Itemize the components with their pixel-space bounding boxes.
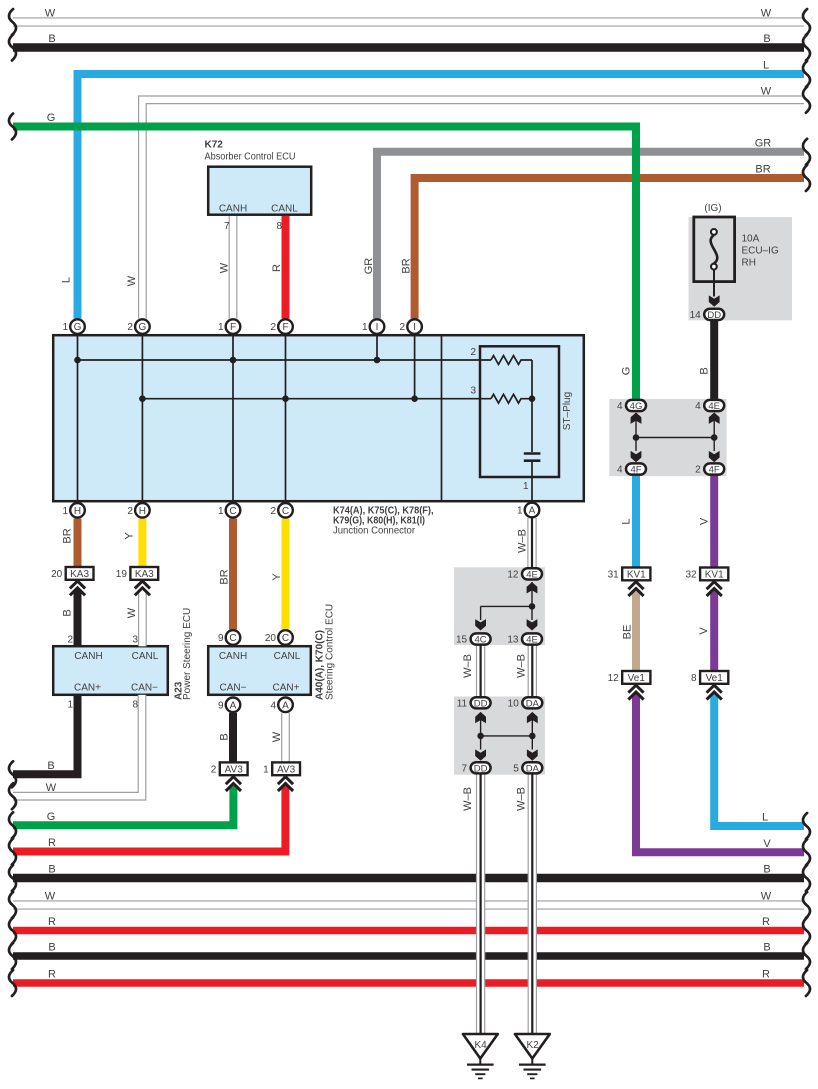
junction connector internal vertical 1G-1H bbox=[77, 335, 79, 501]
svg-text:B: B bbox=[763, 864, 770, 876]
break symbol W top left bbox=[9, 9, 16, 35]
svg-text:14: 14 bbox=[690, 310, 702, 321]
wire B from KA3 to A23 pin 2 bbox=[74, 590, 82, 647]
svg-text:B: B bbox=[48, 942, 55, 954]
svg-text:W–B: W–B bbox=[462, 654, 474, 678]
svg-text:AV3: AV3 bbox=[225, 765, 244, 776]
splice oval 5-DA bbox=[513, 762, 542, 774]
svg-text:B: B bbox=[763, 942, 770, 954]
svg-text:1: 1 bbox=[218, 506, 224, 517]
svg-text:C: C bbox=[229, 633, 236, 644]
break symbol R bottom2 right bbox=[803, 970, 810, 996]
connector box 12 Ve1 bbox=[608, 671, 651, 684]
svg-text:8: 8 bbox=[132, 700, 138, 711]
break symbol R bottom1 right bbox=[803, 918, 810, 944]
break symbol BR right bbox=[803, 165, 810, 191]
ST-Plug box bbox=[480, 346, 559, 477]
break symbol L exit right bbox=[803, 813, 810, 839]
svg-text:4G: 4G bbox=[630, 401, 643, 412]
wire from fuse to 14-DD bbox=[713, 270, 715, 297]
svg-text:B: B bbox=[219, 733, 231, 740]
svg-text:1: 1 bbox=[517, 506, 523, 517]
svg-text:W: W bbox=[761, 86, 772, 98]
svg-text:4E: 4E bbox=[526, 635, 538, 646]
svg-text:L: L bbox=[61, 277, 73, 283]
ECU box A23 Power Steering ECU bbox=[53, 646, 168, 695]
gray background box of splice DD/DA group bbox=[454, 697, 545, 775]
svg-text:C: C bbox=[282, 633, 289, 644]
pin circle 2F bbox=[270, 319, 292, 334]
svg-text:BR: BR bbox=[62, 528, 74, 543]
pin circle 2C bbox=[270, 503, 292, 518]
svg-text:W: W bbox=[761, 8, 772, 20]
svg-text:BE: BE bbox=[622, 625, 634, 640]
svg-text:1: 1 bbox=[263, 765, 269, 776]
svg-text:DD: DD bbox=[707, 310, 721, 321]
connector box 20 KA3 bbox=[51, 567, 93, 580]
wire B bus bottom 2 bbox=[13, 952, 804, 960]
splice oval 7-DD bbox=[462, 762, 491, 774]
wire R from AV3 to left edge bbox=[13, 785, 285, 852]
connector group 3: arrow up into 4E bbox=[709, 413, 720, 424]
node dot rail1 at 1F bbox=[230, 357, 237, 364]
svg-text:G: G bbox=[139, 322, 147, 333]
svg-text:CAN+: CAN+ bbox=[273, 683, 300, 694]
splice group 2: arrow up into 11-DD bbox=[475, 712, 486, 723]
svg-text:CANL: CANL bbox=[132, 651, 159, 662]
node dot rail2 at 2G bbox=[139, 395, 146, 402]
wire W from A40 pin 4A to connector AV3 bbox=[281, 713, 290, 763]
svg-text:C: C bbox=[282, 506, 289, 517]
svg-text:ST–Plug: ST–Plug bbox=[562, 392, 573, 430]
connector group 3: node dot right bbox=[711, 434, 718, 441]
svg-text:19: 19 bbox=[116, 569, 128, 580]
svg-text:BR: BR bbox=[755, 164, 770, 176]
svg-text:C: C bbox=[229, 506, 236, 517]
node dot rail1 at 1I bbox=[374, 357, 381, 364]
svg-text:I: I bbox=[376, 322, 379, 333]
splice group 2: thin lines bbox=[481, 713, 533, 750]
svg-text:I: I bbox=[413, 322, 416, 333]
wire V from Ve1 to right edge bbox=[636, 694, 804, 853]
svg-text:4: 4 bbox=[617, 401, 623, 412]
wire BR from pin 1C to A40 pin 9C bbox=[229, 519, 237, 630]
splice oval 11-DD bbox=[457, 697, 491, 709]
svg-text:V: V bbox=[698, 627, 710, 635]
break symbol B top right bbox=[803, 35, 810, 61]
wire W bus top bbox=[13, 17, 804, 26]
connector box 31 KV1 bbox=[608, 568, 651, 581]
junction connector internal vertical 1I to rail 1 bbox=[376, 335, 378, 360]
svg-text:4C: 4C bbox=[475, 635, 487, 646]
svg-text:K2: K2 bbox=[526, 1040, 539, 1051]
svg-text:1: 1 bbox=[523, 481, 529, 492]
splice group 1: arrow down into 15-4C bbox=[475, 619, 486, 630]
wire W-B from 15-4C to 11-DD bbox=[476, 645, 485, 698]
ground K2 bbox=[515, 1034, 550, 1078]
pin circle 4A bbox=[270, 698, 292, 713]
break symbol B bottom2 left bbox=[9, 943, 16, 969]
svg-text:2: 2 bbox=[270, 506, 276, 517]
wire from capacitor to pin 1A bbox=[531, 462, 533, 503]
break symbol R bottom2 left bbox=[9, 970, 16, 996]
chevron below 1 AV3 bbox=[278, 777, 293, 791]
svg-text:2: 2 bbox=[127, 506, 133, 517]
svg-text:W–B: W–B bbox=[516, 654, 528, 678]
pin circle 1F bbox=[218, 319, 240, 334]
svg-text:W: W bbox=[126, 607, 138, 618]
splice group 1: arrow down into 13-4E bbox=[527, 619, 538, 630]
wire Y from pin 2H to connector KA3 bbox=[138, 519, 146, 568]
svg-text:2: 2 bbox=[127, 322, 133, 333]
wire V from 4F to connector KV1 bbox=[710, 476, 718, 568]
chevron below 2 AV3 bbox=[226, 777, 241, 791]
junction connector internal vertical 2F-2C bbox=[285, 335, 287, 501]
svg-text:4F: 4F bbox=[630, 465, 641, 476]
svg-text:4E: 4E bbox=[708, 401, 720, 412]
svg-text:B: B bbox=[48, 33, 55, 45]
svg-text:9: 9 bbox=[218, 633, 224, 644]
wire R from K72 pin 8 to pin 2F bbox=[282, 216, 290, 319]
svg-text:2: 2 bbox=[400, 322, 406, 333]
break symbol B exit left bbox=[9, 761, 16, 787]
chevron below 12 Ve1 bbox=[628, 685, 643, 699]
wire R bus bottom 1 bbox=[13, 927, 804, 935]
svg-text:W–B: W–B bbox=[462, 787, 474, 811]
wire G from AV3 to left edge bbox=[13, 785, 233, 825]
splice group 2: arrow down into 5-DA bbox=[527, 749, 538, 760]
svg-text:8: 8 bbox=[691, 673, 697, 684]
svg-text:V: V bbox=[699, 517, 711, 525]
wire W from K72 pin 7 to pin 1F bbox=[229, 216, 238, 319]
pin circle 2G bbox=[127, 319, 149, 334]
connector box 32 KV1 bbox=[685, 568, 728, 581]
svg-text:1: 1 bbox=[62, 506, 68, 517]
svg-text:7: 7 bbox=[224, 221, 230, 232]
break symbol W2 top right bbox=[803, 87, 810, 113]
fuse element top circle bbox=[711, 229, 717, 235]
svg-text:1: 1 bbox=[218, 322, 224, 333]
splice oval 14-DD bbox=[690, 309, 725, 321]
wire W bus 2 to pin 2G bbox=[142, 100, 804, 319]
break symbol B bottom1 right bbox=[803, 865, 810, 891]
wire Y from pin 2C to A40 pin 20C bbox=[282, 519, 290, 630]
svg-text:G: G bbox=[74, 322, 82, 333]
splice oval 4-4F bbox=[617, 463, 646, 475]
splice group 2: arrow down into 7-DD bbox=[475, 749, 486, 760]
svg-text:Ve1: Ve1 bbox=[628, 673, 646, 684]
pin circle 9C bbox=[218, 630, 240, 645]
splice oval 2-4F bbox=[695, 463, 724, 475]
svg-text:11: 11 bbox=[457, 698, 468, 709]
svg-text:GR: GR bbox=[755, 137, 772, 149]
splice oval 4-4E bbox=[695, 400, 724, 412]
capacitor in ST-Plug bbox=[524, 454, 541, 461]
chevron below 32 KV1 bbox=[707, 582, 722, 596]
wire G green bus to splice 4G bbox=[13, 127, 636, 399]
svg-text:Steering Control ECU: Steering Control ECU bbox=[325, 604, 336, 700]
svg-text:DD: DD bbox=[474, 698, 488, 709]
svg-text:W: W bbox=[45, 891, 56, 903]
svg-text:K72: K72 bbox=[205, 139, 224, 150]
node dot rail2 at 2F bbox=[282, 395, 289, 402]
svg-text:Y: Y bbox=[124, 532, 136, 540]
svg-text:12: 12 bbox=[608, 673, 620, 684]
wire W-B from 5-DA to ground K2 bbox=[528, 773, 537, 1034]
node dot rail2 at 2I bbox=[411, 395, 418, 402]
break symbol G left bbox=[9, 114, 16, 140]
svg-text:Power Steering ECU: Power Steering ECU bbox=[182, 608, 193, 700]
wire W-B from pin A to splice 12-4E bbox=[527, 518, 536, 568]
resistor on ST-Plug pin 2 bbox=[491, 356, 532, 365]
svg-text:8: 8 bbox=[276, 221, 282, 232]
chevron below 19 KA3 bbox=[135, 581, 150, 595]
chevron below 20 KA3 bbox=[70, 581, 85, 595]
svg-text:V: V bbox=[763, 838, 771, 850]
splice group 1: branch to 15-4C bbox=[481, 606, 532, 620]
connector group 3: node dot left bbox=[633, 434, 640, 441]
splice oval 13-4E bbox=[507, 633, 542, 645]
svg-text:20: 20 bbox=[265, 633, 277, 644]
svg-text:R: R bbox=[762, 916, 770, 928]
svg-text:AV3: AV3 bbox=[277, 765, 296, 776]
wire W from KA3 to A23 pin 3 bbox=[138, 590, 147, 647]
junction connector internal divider bbox=[441, 335, 443, 501]
svg-text:4: 4 bbox=[617, 465, 623, 476]
svg-text:ECU–IG: ECU–IG bbox=[742, 246, 779, 257]
gray background box of connector 4G/4E to 4F/4F group bbox=[609, 399, 726, 476]
svg-text:L: L bbox=[762, 812, 768, 824]
svg-text:GR: GR bbox=[363, 258, 375, 275]
svg-text:K4: K4 bbox=[474, 1040, 487, 1051]
break symbol W bottom right bbox=[803, 892, 810, 918]
svg-text:CANL: CANL bbox=[274, 651, 301, 662]
wire L from Ve1 to right edge bbox=[714, 694, 804, 827]
svg-text:CAN+: CAN+ bbox=[74, 683, 101, 694]
svg-text:DA: DA bbox=[526, 698, 540, 709]
wire BR from pin 1H to connector KA3 bbox=[74, 519, 82, 568]
svg-text:CANH: CANH bbox=[219, 651, 247, 662]
connector group 3: thin lines bbox=[636, 413, 714, 451]
svg-text:(IG): (IG) bbox=[704, 203, 721, 214]
splice oval 15-4C bbox=[456, 633, 491, 645]
svg-text:KA3: KA3 bbox=[135, 569, 154, 580]
svg-text:2: 2 bbox=[470, 347, 476, 358]
splice group 2: arrow up into 10-DA bbox=[527, 712, 538, 723]
resistor on ST-Plug pin 3 bbox=[491, 394, 532, 403]
pin circle 20C bbox=[265, 630, 293, 645]
svg-text:5: 5 bbox=[513, 763, 519, 774]
svg-text:CANL: CANL bbox=[271, 204, 298, 215]
wire B from A23 pin 1 to left edge bbox=[13, 695, 78, 774]
svg-text:W: W bbox=[219, 262, 231, 273]
junction connector internal vertical 1F-1C bbox=[232, 335, 234, 501]
break symbol GR right bbox=[803, 139, 810, 165]
svg-text:W: W bbox=[761, 891, 772, 903]
gray background box of splice 4E/4C group bbox=[454, 567, 545, 645]
break symbol R bottom1 left bbox=[9, 918, 16, 944]
svg-text:1: 1 bbox=[62, 322, 68, 333]
splice oval 10-DA bbox=[508, 697, 543, 709]
pin circle 1I bbox=[362, 319, 384, 334]
svg-text:H: H bbox=[139, 506, 146, 517]
svg-text:R: R bbox=[48, 837, 56, 849]
junction connector CANH rail 1 bbox=[78, 359, 492, 361]
splice group 1: thin line 12-4E down to branch bbox=[531, 582, 533, 620]
break symbol L top right bbox=[803, 61, 810, 87]
break symbol R exit left bbox=[9, 839, 16, 865]
svg-text:R: R bbox=[48, 969, 56, 981]
splice group 1: node dot bbox=[529, 603, 536, 610]
svg-text:G: G bbox=[621, 367, 633, 376]
svg-text:15: 15 bbox=[456, 635, 468, 646]
svg-text:2: 2 bbox=[695, 465, 701, 476]
svg-text:31: 31 bbox=[608, 570, 620, 581]
svg-text:DD: DD bbox=[474, 763, 488, 774]
ground K4 bbox=[463, 1034, 498, 1078]
pin circle 9A bbox=[218, 698, 240, 713]
svg-text:1: 1 bbox=[362, 322, 368, 333]
connector group 3: arrow down into right 4F bbox=[709, 451, 720, 462]
svg-text:B: B bbox=[763, 33, 770, 45]
splice group 2: node dot right bbox=[529, 733, 536, 740]
break symbol B top left bbox=[9, 35, 16, 61]
gray background box of fuse ECU-IG RH bbox=[689, 217, 793, 320]
junction connector internal vertical 2I to rail 2 bbox=[414, 335, 416, 399]
fuse element squiggle bbox=[711, 235, 718, 264]
wire B from A40 pin 9A to connector AV3 bbox=[229, 713, 237, 763]
svg-text:CANH: CANH bbox=[74, 651, 102, 662]
svg-text:Junction Connector: Junction Connector bbox=[333, 526, 416, 537]
svg-text:Absorber Control ECU: Absorber Control ECU bbox=[205, 152, 296, 163]
svg-text:W–B: W–B bbox=[516, 787, 528, 811]
svg-text:W: W bbox=[271, 731, 283, 742]
svg-text:BR: BR bbox=[401, 258, 413, 273]
svg-text:B: B bbox=[62, 609, 74, 616]
svg-text:R: R bbox=[762, 969, 770, 981]
svg-text:CANH: CANH bbox=[219, 204, 247, 215]
svg-text:32: 32 bbox=[685, 570, 697, 581]
node dot rail1 at 1G bbox=[74, 357, 81, 364]
break symbol W bottom left bbox=[9, 892, 16, 918]
wire from resistors to capacitor bbox=[531, 360, 533, 452]
svg-text:KA3: KA3 bbox=[70, 569, 89, 580]
svg-text:G: G bbox=[47, 112, 56, 124]
svg-text:B: B bbox=[699, 367, 711, 374]
svg-text:W: W bbox=[45, 8, 56, 20]
wire L from 4F to connector KV1 bbox=[632, 476, 640, 568]
wire BR from bus to pin 2I bbox=[415, 178, 804, 319]
svg-text:A: A bbox=[230, 700, 237, 711]
svg-text:4: 4 bbox=[270, 700, 276, 711]
svg-text:CAN−: CAN− bbox=[131, 683, 158, 694]
pin circle 1G bbox=[62, 319, 84, 334]
svg-text:12: 12 bbox=[507, 569, 519, 580]
connector group 3: arrow down into left 4F bbox=[631, 451, 642, 462]
connector box 2 AV3 bbox=[211, 762, 248, 775]
wire W bus bottom bbox=[13, 900, 804, 909]
fuse 10A ECU-IG RH box bbox=[694, 217, 735, 282]
svg-text:BR: BR bbox=[219, 569, 231, 584]
svg-text:L: L bbox=[621, 518, 633, 524]
break symbol G exit left bbox=[9, 812, 16, 838]
connector box 19 KA3 bbox=[116, 567, 158, 580]
svg-text:Ve1: Ve1 bbox=[706, 673, 724, 684]
svg-text:KV1: KV1 bbox=[627, 570, 646, 581]
wire L blue from bus to pin 1G bbox=[78, 74, 805, 319]
node dot rail2 at ST-Plug bbox=[529, 395, 536, 402]
splice oval 4-4G bbox=[617, 400, 646, 412]
wire GR from bus to pin 1I bbox=[377, 152, 804, 319]
svg-text:3: 3 bbox=[470, 386, 476, 397]
svg-text:DA: DA bbox=[526, 763, 540, 774]
connector group 3: arrow up into 4G bbox=[631, 413, 642, 424]
break symbol W exit left bbox=[9, 783, 16, 809]
wire B bus top bbox=[13, 43, 804, 52]
wire W-B from 7-DD to ground K4 bbox=[476, 773, 485, 1034]
chevron below 8 Ve1 bbox=[707, 685, 722, 699]
connector box 1 AV3 bbox=[263, 762, 300, 775]
svg-text:3: 3 bbox=[132, 635, 138, 646]
splice group 1: arrow up into 12-4E bbox=[527, 582, 538, 593]
svg-text:L: L bbox=[763, 60, 769, 72]
svg-text:RH: RH bbox=[742, 258, 756, 269]
svg-text:4E: 4E bbox=[526, 569, 538, 580]
wire R bus bottom 2 bbox=[13, 979, 804, 987]
svg-text:CAN−: CAN− bbox=[220, 683, 247, 694]
wire BE from KV1 to Ve1 bbox=[632, 590, 640, 671]
wire W from A23 pin 8 to left edge bbox=[13, 695, 142, 796]
wire B from fuse DD to splice 4E bbox=[710, 321, 718, 399]
svg-text:W: W bbox=[46, 782, 57, 794]
ECU box A40/K70 Steering Control ECU bbox=[208, 646, 311, 695]
junction connector internal vertical 2G-2H bbox=[141, 335, 143, 501]
junction connector CANL rail 2 bbox=[142, 398, 491, 400]
svg-text:1: 1 bbox=[67, 700, 73, 711]
svg-text:2: 2 bbox=[211, 765, 217, 776]
arrow down into 14-DD bbox=[709, 295, 720, 306]
svg-text:W: W bbox=[126, 275, 138, 286]
svg-text:W–B: W–B bbox=[517, 529, 529, 553]
wire B bus bottom 1 bbox=[13, 874, 804, 882]
break symbol V exit right bbox=[803, 839, 810, 865]
fuse element bottom circle bbox=[711, 264, 717, 270]
svg-text:B: B bbox=[47, 760, 54, 772]
svg-text:Y: Y bbox=[271, 573, 283, 581]
svg-text:G: G bbox=[47, 811, 56, 823]
chevron below 31 KV1 bbox=[628, 582, 643, 596]
pin circle 1A bbox=[517, 503, 539, 518]
svg-text:4F: 4F bbox=[709, 465, 720, 476]
connector box 8 Ve1 bbox=[691, 671, 728, 684]
svg-text:B: B bbox=[48, 864, 55, 876]
svg-text:10A: 10A bbox=[742, 234, 760, 245]
svg-text:A: A bbox=[529, 506, 536, 517]
svg-text:F: F bbox=[282, 322, 288, 333]
splice oval 12-4E bbox=[507, 568, 542, 580]
pin circle 1H bbox=[62, 503, 84, 518]
svg-text:KV1: KV1 bbox=[705, 570, 724, 581]
svg-text:9: 9 bbox=[218, 700, 224, 711]
svg-text:A: A bbox=[282, 700, 289, 711]
junction connector box K74-K81 bbox=[53, 335, 584, 501]
svg-text:20: 20 bbox=[51, 569, 63, 580]
wire W-B from 13-4E to 10-DA bbox=[528, 645, 537, 698]
svg-text:2: 2 bbox=[67, 635, 73, 646]
svg-text:R: R bbox=[271, 264, 283, 272]
pin circle 2H bbox=[127, 503, 149, 518]
svg-text:2: 2 bbox=[270, 322, 276, 333]
